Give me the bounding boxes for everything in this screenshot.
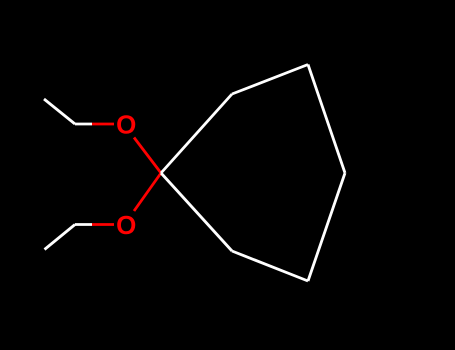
bond CH2b-Ob red half	[92, 223, 114, 226]
bond CH2b-Ob white half	[75, 223, 92, 226]
ring bond C2-C3 (top-left to top-right)	[232, 65, 308, 95]
ring bond C1-C2 (left to top-left)	[161, 94, 232, 173]
ring bond C5-C6 (bottom-right to bottom-left)	[232, 251, 308, 281]
bond Ob-C1	[134, 173, 161, 211]
svg-text:O: O	[116, 110, 136, 140]
ring bond C6-C1 (bottom-left to left)	[161, 173, 232, 251]
bond CH3a-CH2a (top ethyl diagonal)	[44, 99, 75, 124]
bond Oa-C1	[134, 138, 161, 174]
ring bond C3-C4 (top-right to right apex)	[308, 65, 345, 174]
bond CH2a-Oa white half	[75, 123, 92, 126]
bond CH3b-CH2b (bottom ethyl diagonal)	[45, 225, 76, 250]
svg-text:O: O	[116, 210, 136, 240]
ring bond C4-C5 (right apex to bottom-right)	[308, 173, 345, 281]
bond CH2a-Oa red half	[92, 123, 114, 126]
